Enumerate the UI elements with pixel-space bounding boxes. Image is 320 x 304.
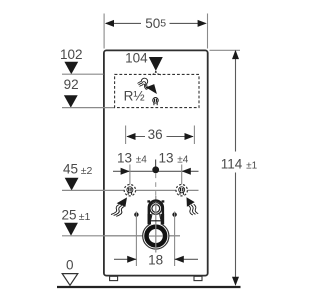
level marker 0 open triangle (62, 274, 78, 286)
bracket shoulder right (162, 200, 165, 202)
drill icon right waves (188, 204, 198, 215)
level marker 92 triangle (64, 95, 78, 107)
fixing point left glyph (127, 187, 133, 195)
centre dot (152, 166, 159, 173)
level leader 92 (62, 107, 115, 109)
dimension 36 left arrow (126, 133, 135, 140)
dimension 50.5 extension line left (103, 14, 105, 49)
level marker 102 triangle (64, 62, 78, 74)
dimension 13 right arrow (points left) (182, 168, 191, 175)
centre line dashed upper (155, 174, 157, 197)
flush pipe circles (150, 203, 162, 215)
svg-text:R½: R½ (124, 89, 145, 104)
bracket base line (151, 220, 161, 222)
dimension 18 tail left (114, 258, 136, 260)
svg-text:104: 104 (125, 50, 148, 65)
level marker 45 triangle (65, 178, 79, 191)
bolt dot right (172, 212, 176, 216)
drain socket ring (147, 227, 166, 246)
water connection point glyph (153, 98, 159, 106)
dimension 13 line (113, 170, 199, 172)
dimension 114 top extension (210, 49, 241, 51)
bolt dot left (134, 212, 138, 216)
centre tick (155, 160, 157, 167)
svg-text:102: 102 (60, 47, 83, 62)
bracket shoulder left (147, 200, 150, 202)
dimension 114 top arrow (232, 50, 239, 59)
fixing centre line right (181, 165, 183, 185)
left foot (110, 276, 118, 280)
dimension 50.5 left arrow (105, 20, 114, 27)
dimension 36 extension right (193, 126, 195, 145)
drain outer circle (143, 223, 169, 249)
dimension 36 line (127, 136, 145, 138)
dimension 18 right arrow (points left) (175, 256, 184, 263)
bracket bell right (160, 214, 162, 221)
fixing point left dashed circle (124, 185, 135, 196)
bolt line left (135, 212, 137, 267)
water inlet arrow (146, 84, 157, 94)
svg-text:45: 45 (63, 162, 78, 177)
dimension 50.5 right arrow (198, 20, 207, 27)
dimension 13 left arrow (points right) (121, 168, 130, 175)
right foot (194, 276, 202, 280)
bracket leg left lower (148, 214, 151, 224)
svg-text:18: 18 (148, 252, 163, 267)
bracket bell left (150, 214, 152, 221)
bolt line right (174, 212, 176, 267)
dimension 18 left arrow (points right) (127, 256, 136, 263)
water supply zone dashed box (115, 74, 199, 107)
drain crosshair inner (149, 235, 163, 237)
dimension 114 line (235, 51, 237, 152)
water inlet wavy icon (138, 78, 149, 90)
drill icon left arrow (117, 197, 127, 206)
dimension 50.5 line (106, 22, 141, 24)
dimension 50.5 extension line right (207, 14, 209, 49)
svg-text:505: 505 (145, 16, 166, 31)
svg-text:±1: ±1 (79, 211, 91, 223)
svg-text:25: 25 (61, 208, 76, 223)
level marker 25 triangle (64, 223, 78, 236)
svg-text:36: 36 (148, 127, 163, 142)
bracket white fill (148, 199, 164, 224)
drain crosshair horizontal (104, 235, 180, 237)
svg-text:±2: ±2 (81, 165, 93, 177)
dimension 114 bottom arrow (232, 277, 239, 286)
level leader 45 (62, 189, 104, 191)
svg-text:0: 0 (66, 257, 74, 272)
dimension 36 right arrow (185, 133, 194, 140)
fixing point right dashed circle (176, 185, 187, 196)
level leader 102 (62, 73, 104, 75)
dimension 36 extension left (125, 126, 127, 145)
module outline (104, 50, 208, 275)
svg-text:92: 92 (64, 77, 79, 92)
level marker 104 triangle (149, 57, 163, 71)
drill icon right arrow (187, 197, 195, 207)
fixing point right glyph (179, 187, 185, 195)
floor line (57, 286, 241, 288)
bracket arch (149, 201, 163, 225)
marker 104 dashed flares (151, 71, 156, 75)
anchor line through fixing points (104, 189, 199, 191)
level leader 25 / drain axis (62, 235, 180, 237)
fixing centre line left (129, 165, 131, 185)
drill icon left waves (111, 205, 124, 217)
centre line through bend (155, 196, 157, 253)
bracket leg right lower (161, 214, 164, 224)
dimension 18 tail right (175, 258, 198, 260)
